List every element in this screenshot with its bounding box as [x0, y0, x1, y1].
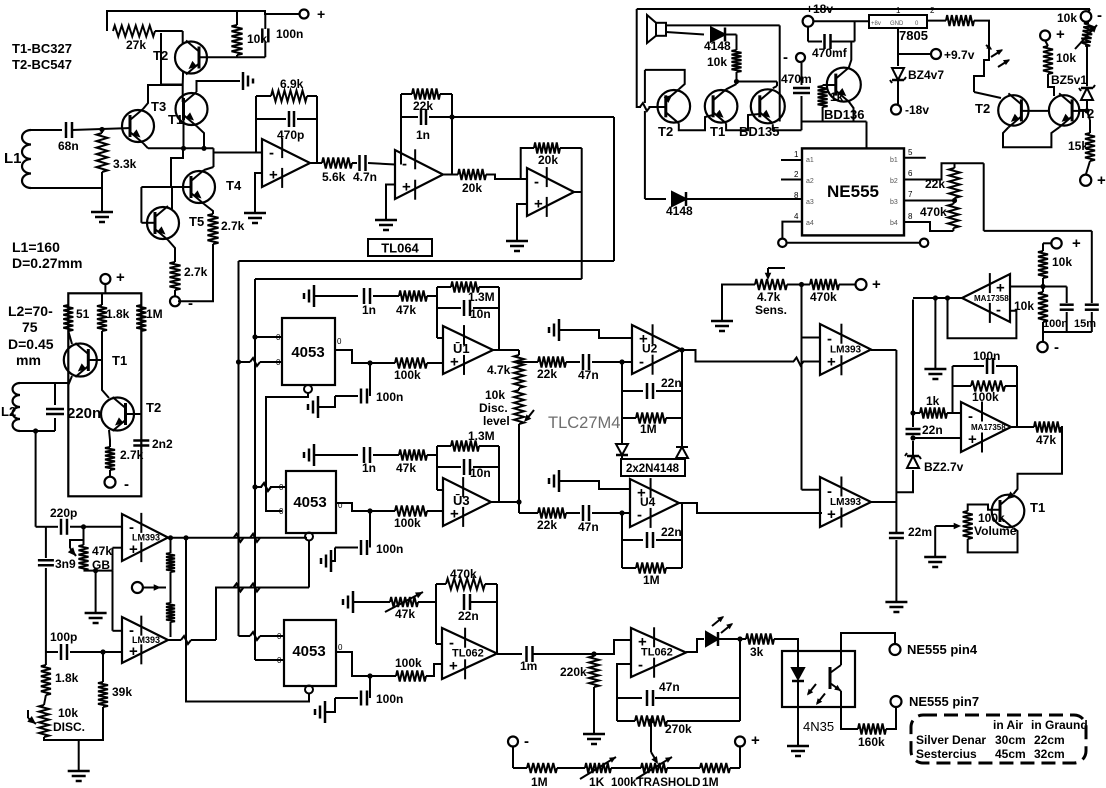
wire power bottom rail [802, 122, 867, 149]
wire 3k to 4N35 [774, 639, 798, 651]
svg-text:7: 7 [908, 190, 913, 199]
label T1-BC327 T2-BC547 [12, 41, 72, 72]
terminal NE555 pin4 [890, 642, 978, 657]
terminal + bottom [735, 732, 760, 749]
svg-text:-18v: -18v [905, 103, 929, 117]
svg-text:20k: 20k [538, 153, 558, 167]
svg-text:+: + [1097, 172, 1106, 189]
led arrows TL062 [712, 616, 733, 633]
resistor 6.9k feedback [256, 77, 317, 102]
regulator 7805 [869, 6, 935, 43]
wire T2p emitter [679, 115, 713, 130]
svg-text:U2: U2 [642, 342, 658, 356]
wire vertical x239 clock [238, 261, 240, 636]
svg-text:-: - [534, 173, 539, 190]
terminal - 470m [783, 49, 805, 66]
capacitor 3n9 [38, 527, 76, 652]
op-amp U1c TL064 [527, 167, 574, 217]
svg-text:T1: T1 [710, 124, 725, 139]
wire row3 [667, 767, 700, 769]
svg-text:in Air: in Air [993, 718, 1024, 732]
svg-text:4: 4 [794, 212, 799, 221]
svg-text:51: 51 [76, 307, 90, 321]
svg-text:100k: 100k [395, 656, 422, 670]
wire to LM393a plus [113, 548, 123, 571]
svg-text:Ū1: Ū1 [453, 341, 470, 356]
transistor T2 top-left [153, 41, 207, 75]
svg-text:+: + [317, 6, 325, 22]
wire T2 base to right edge [126, 413, 142, 415]
terminal + 10k2 [1040, 26, 1065, 43]
svg-text:T1: T1 [168, 112, 183, 127]
svg-text:TL062: TL062 [452, 648, 484, 660]
wire 7805 gnd column [897, 28, 899, 66]
svg-text:2x2N4148: 2x2N4148 [626, 463, 680, 475]
wire T2p collector loop [645, 70, 685, 89]
wire BD136 emitter [849, 102, 854, 122]
wire 2.7k to minus terminal [178, 244, 213, 301]
wire U1 feedback rails [437, 287, 499, 350]
resistor 10k upper right1 [1038, 243, 1072, 286]
svg-text:1.8k: 1.8k [106, 307, 130, 321]
capacitor 1n feedback [401, 109, 452, 142]
wire MA2 plus row [910, 435, 961, 440]
svg-text:BZ4v7: BZ4v7 [908, 68, 944, 82]
capacitor 1n U3 [314, 447, 376, 475]
wire top right rail [637, 9, 1090, 13]
wire 4053a input2 [236, 358, 282, 366]
svg-text:BD136: BD136 [824, 107, 864, 122]
wire 160k to pin7 [886, 707, 896, 729]
wire loop vertical down [644, 70, 646, 199]
svg-text:30cm: 30cm [995, 733, 1026, 747]
svg-text:7805: 7805 [899, 28, 928, 43]
wire U2 feedback right rail [679, 347, 691, 444]
terminal ne555 left [778, 239, 786, 247]
svg-text:1.3M: 1.3M [468, 429, 495, 443]
wire 47k bottom row [84, 568, 113, 573]
svg-text:+: + [129, 643, 138, 660]
potentiometer 1K [580, 757, 616, 788]
ic 4053 first [276, 318, 342, 385]
svg-text:LM393: LM393 [132, 533, 160, 543]
wire vertical x614 [613, 117, 615, 261]
svg-text:2.7k: 2.7k [221, 219, 245, 233]
resistor 2.7k T4 [208, 214, 245, 244]
terminal -18v [891, 103, 929, 117]
capacitor 100p [46, 630, 122, 660]
wire TL062b feedback [617, 664, 631, 721]
svg-text:T1-BC327: T1-BC327 [12, 41, 72, 56]
capacitor 100n MA2 [953, 349, 1018, 374]
svg-text:LM393: LM393 [830, 345, 862, 356]
transistor T2 right1 [975, 93, 1029, 127]
wire long feedback y117 [452, 116, 614, 118]
wire opamp1 minus to feedback [256, 96, 262, 153]
ground 100n 4053b [321, 548, 335, 573]
wire TL062b out [686, 639, 704, 652]
svg-text:1k: 1k [830, 90, 844, 104]
ground sens [711, 285, 755, 332]
ground U3 input row [304, 444, 314, 466]
wire BD135 emitter [773, 124, 802, 130]
svg-text:270k: 270k [665, 722, 692, 736]
wire pin b2 [904, 163, 955, 179]
terminal - 10k [1037, 339, 1059, 356]
speaker [647, 15, 666, 43]
svg-text:1: 1 [896, 6, 901, 15]
svg-text:a1: a1 [806, 157, 814, 164]
capacitor 68n [58, 122, 79, 153]
resistor 220k [560, 654, 599, 687]
wire sens vertical [801, 285, 803, 490]
resistor 22k ne555 [925, 163, 960, 200]
wire 4053a input1 [252, 334, 282, 339]
svg-text:a3: a3 [806, 199, 814, 206]
svg-text:b4: b4 [890, 220, 898, 227]
ground MA1 [924, 298, 946, 379]
wire L2 down left [33, 428, 38, 526]
svg-text:100k: 100k [394, 368, 421, 382]
capacitor 22m [889, 525, 932, 601]
wire pin a2 [781, 179, 802, 181]
svg-text:0: 0 [279, 507, 284, 516]
label 4N35 [803, 719, 834, 734]
svg-text:in Graund: in Graund [1031, 718, 1088, 732]
capacitor 22n U2 [622, 376, 682, 399]
svg-text:10k: 10k [485, 388, 505, 402]
resistor 100k MA2 [953, 381, 1018, 405]
wire T5 base [141, 187, 155, 223]
resistor 20k feedback opamp3 [521, 143, 582, 180]
transistor T2 mid-left [101, 397, 161, 431]
wire T1p collector link [726, 84, 736, 89]
wire T1 emitter to bus [197, 126, 205, 148]
terminal NE555 pin7 [891, 694, 980, 709]
svg-text:+: + [129, 541, 138, 558]
capacitor 10n U1 [437, 300, 499, 321]
svg-text:6: 6 [908, 169, 913, 178]
svg-text:100n: 100n [973, 349, 1000, 363]
wire pin a1 [781, 159, 802, 161]
wire signal bus y148 [148, 146, 214, 151]
resistor 1.3M U1 [437, 282, 499, 305]
svg-text:1n: 1n [362, 303, 376, 317]
svg-text:10n: 10n [470, 466, 491, 480]
capacitor 1m [497, 646, 594, 673]
svg-text:10k: 10k [58, 706, 78, 720]
svg-text:100n: 100n [376, 390, 403, 404]
wire T5 emitter [168, 240, 175, 262]
wire U2 out to LM393 [691, 350, 820, 366]
svg-text:3k: 3k [750, 645, 764, 659]
ground 47k GB [85, 571, 107, 623]
svg-text:b2: b2 [890, 178, 898, 185]
svg-text:22cm: 22cm [1034, 733, 1065, 747]
capacitor 22n TL062 [458, 594, 497, 623]
wire T3 collector up [143, 85, 183, 109]
transistor T5 [147, 206, 204, 240]
svg-text:4053: 4053 [293, 494, 326, 511]
svg-text:1M: 1M [640, 422, 657, 436]
svg-text:10k: 10k [1052, 255, 1072, 269]
svg-text:-: - [524, 733, 529, 750]
wire 68n to T3 base [72, 127, 130, 132]
svg-text:T2: T2 [658, 124, 673, 139]
wire T1 emitter [68, 376, 72, 385]
phototransistor 4N35 [830, 651, 841, 707]
resistor 270k [617, 716, 740, 737]
wire MA1 plus row [1010, 284, 1067, 289]
wire 7805 out [927, 20, 946, 22]
resistor 1M U2 [622, 413, 682, 437]
svg-text:-: - [996, 302, 1001, 319]
svg-text:0: 0 [338, 643, 343, 652]
capacitor 100n top-left [262, 14, 303, 57]
resistor 39k [98, 649, 132, 707]
svg-text:+18v: +18v [806, 2, 833, 16]
wire BD135 collector link [773, 86, 777, 88]
svg-text:22m: 22m [908, 525, 932, 539]
svg-text:32cm: 32cm [1034, 747, 1065, 761]
svg-text:100n: 100n [376, 692, 403, 706]
wire 47k to 22n row [418, 601, 436, 603]
svg-text:LM393: LM393 [132, 635, 160, 645]
op-amp U3 [443, 477, 491, 527]
wire LM393a output [167, 534, 307, 542]
svg-text:-: - [639, 353, 644, 370]
svg-text:T2: T2 [146, 400, 161, 415]
svg-text:1M: 1M [643, 573, 660, 587]
wire feedback right rail opamp2 [443, 94, 458, 175]
ground 100n 4053a [308, 396, 335, 418]
svg-text:level: level [483, 414, 510, 428]
diode TL062 out [706, 632, 746, 646]
svg-text:100p: 100p [50, 630, 77, 644]
ic 4053 second [279, 471, 343, 533]
resistor 47k U3 [373, 450, 437, 476]
label 470m [781, 72, 812, 86]
optocoupler 4N35 box [782, 651, 855, 707]
terminal - mid-left [105, 476, 130, 493]
transistor T2 power [658, 89, 691, 139]
svg-text:+: + [449, 658, 458, 675]
transistor BD136 [824, 68, 864, 122]
bubble 4053c [305, 686, 313, 694]
wire T2r bases [1021, 110, 1049, 112]
wire 15k to terminal [1086, 161, 1090, 174]
svg-text:20k: 20k [462, 181, 482, 195]
diode 4148 speaker [704, 28, 731, 54]
resistor 470k TL062 [436, 567, 497, 590]
svg-text:-: - [638, 656, 643, 673]
wire bus to opamp minus [214, 148, 263, 152]
resistor 2.7k T5 [170, 262, 208, 290]
svg-text:47k: 47k [395, 607, 415, 621]
svg-text:470k: 470k [450, 567, 477, 581]
svg-text:4.7k: 4.7k [757, 290, 781, 304]
ground 4N35 [787, 707, 809, 756]
terminal +9.7v [898, 48, 975, 62]
svg-text:T2: T2 [153, 48, 168, 63]
wire speaker bottom to diode [666, 32, 704, 35]
wire U1 out to chain [493, 349, 519, 351]
svg-text:TLC27M4: TLC27M4 [548, 414, 620, 432]
potentiometer 100k volume [963, 505, 1017, 540]
wire 20k to opamp3 [486, 175, 527, 180]
resistor 470k ne555 [920, 201, 959, 232]
svg-text:+: + [827, 506, 836, 523]
svg-text:GND: GND [890, 21, 904, 27]
wire 2.7k to terminal [174, 290, 176, 296]
svg-text:1: 1 [794, 150, 799, 159]
svg-text:10k: 10k [1056, 51, 1076, 65]
svg-text:+9.7v: +9.7v [944, 48, 975, 62]
svg-text:-: - [188, 295, 193, 312]
bubble 4053a [304, 385, 312, 393]
svg-text:Sestercius: Sestercius [916, 747, 977, 761]
wire 4053c out [336, 652, 396, 676]
svg-text:22n: 22n [458, 609, 479, 623]
potentiometer 100k trashold [611, 757, 700, 788]
svg-text:47n: 47n [578, 520, 599, 534]
ground bottom left [68, 740, 90, 781]
resistor 1.8k [97, 293, 130, 331]
wire T5 collector [171, 187, 173, 209]
capacitor 220n [46, 383, 101, 431]
resistor 22k feedback [401, 89, 452, 165]
transistor T1 power [705, 89, 738, 139]
terminal - 10k right [1057, 7, 1102, 25]
svg-text:6.9k: 6.9k [280, 77, 304, 91]
op-amp TL062 first [442, 628, 497, 680]
divider resistor upper [166, 538, 175, 572]
resistor 100k U1 [394, 358, 443, 383]
svg-text:5: 5 [908, 148, 913, 157]
svg-text:2: 2 [794, 170, 799, 179]
wire 4053c input2 [255, 659, 284, 661]
svg-text:45cm: 45cm [995, 747, 1026, 761]
svg-text:-: - [637, 507, 642, 524]
wire LM393a out down x186 [186, 538, 309, 702]
resistor 10k top-left [232, 10, 268, 57]
svg-text:-: - [1054, 339, 1059, 356]
led inside 4N35 [792, 651, 804, 707]
svg-text:39k: 39k [112, 685, 132, 699]
capacitor 22n U4 [622, 525, 682, 548]
wire 22k top to right rail [955, 163, 984, 231]
wire L2 top row [20, 382, 68, 384]
resistor 51 [63, 305, 89, 331]
transistor T1 volume [992, 491, 1045, 528]
svg-text:T1: T1 [1030, 500, 1045, 515]
ground 22m [885, 602, 907, 612]
svg-text:100n: 100n [1043, 318, 1068, 330]
svg-text:4.7n: 4.7n [353, 170, 377, 184]
svg-text:1M: 1M [146, 307, 163, 321]
capacitor 47n TL062 [617, 680, 740, 706]
capacitor 47n U2 row [566, 354, 632, 382]
resistor 1M bottom1 [527, 763, 557, 788]
wire 100k to TL062a plus [426, 664, 442, 676]
svg-text:100kTRASHOLD: 100kTRASHOLD [611, 777, 700, 788]
wire T2 collector to base column [102, 360, 109, 398]
potentiometer 10k DISC [27, 695, 85, 737]
capacitor 4.7n [352, 155, 395, 184]
svg-text:47n: 47n [578, 368, 599, 382]
wire to LM393r1 minus [802, 337, 821, 339]
wire T2 emitter [109, 430, 110, 447]
svg-text:Ū3: Ū3 [453, 493, 470, 508]
op-amp LM393 right upper [820, 324, 871, 376]
svg-text:100k: 100k [394, 516, 421, 530]
svg-text:-: - [124, 476, 129, 493]
svg-text:3n9: 3n9 [55, 557, 76, 571]
wire LM393r2 out [871, 501, 896, 503]
svg-text:T2-BC547: T2-BC547 [12, 57, 72, 72]
resistor out 7805 [946, 15, 974, 26]
svg-text:2: 2 [930, 6, 935, 15]
wire 4053a bubble to x266 [261, 393, 308, 511]
wire U3 out [491, 501, 519, 503]
wire T4 emitter [204, 204, 213, 214]
wire L1 bottom row [31, 172, 102, 212]
svg-text:-: - [1097, 7, 1102, 24]
inductor L2 [1, 383, 20, 431]
ground 3.3k [91, 212, 113, 222]
wire chain bottom [516, 359, 521, 513]
wire 18v rail [808, 21, 869, 41]
resistor 5.6k [322, 158, 352, 185]
wire bottom rail disc [44, 707, 103, 740]
svg-text:1K: 1K [589, 775, 605, 788]
ground 47k pot [343, 591, 353, 613]
capacitor 100n 4053b [335, 508, 403, 556]
svg-text:1.8k: 1.8k [55, 671, 79, 685]
transistor BD135 [739, 89, 785, 139]
capacitor 100n 4053c [335, 673, 403, 706]
svg-text:+: + [534, 196, 543, 213]
wire T3 emitter [143, 143, 148, 148]
transistor T1 mid-left [64, 343, 127, 377]
potentiometer 47k bottom [353, 592, 423, 621]
svg-text:MA17358: MA17358 [974, 294, 1009, 303]
terminal +18v [803, 2, 834, 27]
svg-text:1n: 1n [416, 128, 430, 142]
wire top rail [107, 11, 299, 31]
op-amp LM393 bottom-left second [122, 616, 168, 665]
terminal + mid-left [100, 269, 125, 286]
svg-text:47k: 47k [396, 461, 416, 475]
svg-text:-: - [269, 144, 274, 161]
svg-text:BZ5v1: BZ5v1 [1051, 73, 1087, 87]
svg-text:1m: 1m [520, 659, 537, 673]
wire pin b1 [904, 157, 926, 159]
wire 15m top rail [984, 230, 1092, 232]
resistor 10k right2 [1043, 41, 1076, 75]
svg-text:100n: 100n [276, 27, 303, 41]
wire speaker top [666, 25, 780, 121]
svg-text:4148: 4148 [704, 39, 731, 53]
svg-text:T1: T1 [112, 353, 127, 368]
resistor 47k U1 [373, 291, 437, 318]
wire T2r emitters [1003, 127, 1059, 147]
resistor 27k [113, 26, 155, 53]
wire bus step to T4 base [171, 148, 183, 187]
wire row to + terminal [730, 747, 740, 769]
svg-text:22k: 22k [537, 518, 557, 532]
wire cap bottom row [1043, 332, 1092, 341]
